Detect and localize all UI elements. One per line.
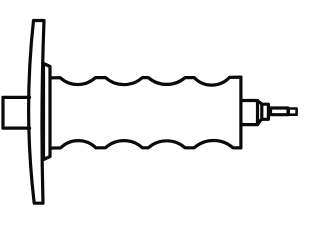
tip shaft: [271, 108, 289, 115]
taper from ferrule to collar (bottom): [258, 119, 262, 125]
hub between flange and grip: [44, 64, 51, 160]
ferrule: [241, 101, 258, 125]
tip end nub: [289, 109, 297, 115]
taper from ferrule to collar (top): [258, 101, 262, 104]
flange disc (edge view): [29, 21, 44, 204]
collar: [262, 104, 269, 119]
grip body with wavy ribs: [50, 77, 241, 148]
left stub shaft end: [3, 97, 30, 128]
